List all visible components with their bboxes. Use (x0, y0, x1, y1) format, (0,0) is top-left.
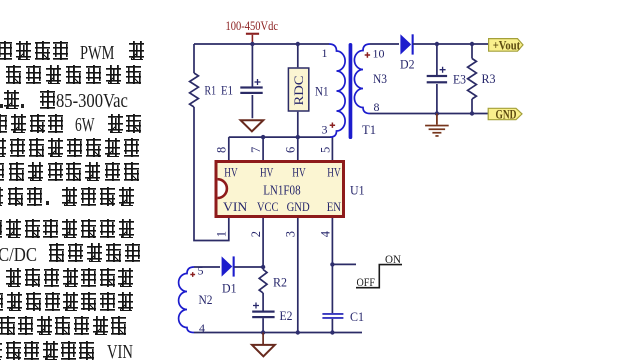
svg-text:1: 1 (215, 231, 229, 237)
junction rail/R3 (470, 42, 474, 46)
svg-text:N2: N2 (199, 292, 213, 307)
capacitor E2 (252, 311, 274, 313)
wire: pin 3 (GND) down to rail (297, 218, 299, 333)
CJK paragraph line 1 (0, 41, 1, 61)
capacitor E3 (436, 44, 438, 114)
svg-text:E2: E2 (280, 308, 293, 323)
wire: pin 8 (228, 137, 230, 161)
port GND (488, 108, 522, 119)
resistor R1 (190, 73, 199, 107)
svg-text:LN1F08: LN1F08 (263, 182, 301, 197)
CJK paragraph line 4 (0, 114, 1, 134)
CJK paragraph line 7 (0, 187, 1, 207)
CJK paragraph line 11 (0, 292, 1, 312)
svg-text:7: 7 (249, 147, 263, 153)
capacitor C1 (322, 313, 343, 315)
svg-text:5: 5 (318, 147, 332, 153)
wire: pin 7 (262, 137, 264, 161)
port +Vout (489, 39, 523, 52)
CJK paragraph line 13 (0, 341, 1, 361)
svg-text:VIN: VIN (223, 199, 248, 214)
svg-text:E3: E3 (453, 72, 466, 87)
junction EN stub (330, 262, 334, 266)
U1 notch (218, 179, 227, 198)
svg-text:E1: E1 (221, 83, 233, 98)
earth ground symbol (436, 114, 438, 125)
svg-text:EN: EN (327, 199, 342, 214)
wire: N2 top lead to D1 (194, 266, 220, 268)
junction bus/pin7 (261, 135, 265, 139)
CJK paragraph line 3 (0, 90, 1, 110)
svg-text:U1: U1 (350, 183, 365, 198)
junction gnd/R3 (470, 111, 474, 115)
CJK paragraph line 10 (0, 268, 1, 288)
wire: left branch down from rail to pin 1 of U1 (194, 44, 229, 241)
svg-text:100-450Vdc: 100-450Vdc (226, 18, 279, 33)
svg-text:4: 4 (199, 321, 205, 335)
svg-text:GND: GND (496, 106, 517, 121)
junction rail/C1 (330, 330, 334, 334)
CJK paragraph line 9 (0, 243, 1, 263)
svg-text:10: 10 (373, 47, 385, 61)
transformer T1 core (349, 43, 353, 139)
svg-text:R3: R3 (482, 71, 496, 86)
wire: D1 to VCC node (234, 266, 263, 268)
svg-text:T1: T1 (362, 122, 376, 137)
auxiliary winding N2 (179, 267, 194, 333)
op-amp/controller U1 body (216, 162, 344, 217)
CJK paragraph line 8 (0, 219, 1, 239)
diode D2 (400, 34, 411, 54)
svg-text:4: 4 (318, 230, 332, 237)
svg-text:5: 5 (198, 264, 204, 278)
diode D1 (222, 256, 233, 276)
ON/OFF step annotation (356, 265, 402, 288)
ground triangle under bottom rail (262, 333, 264, 345)
svg-text:R2: R2 (273, 275, 287, 290)
wire: D2 to +Vout (413, 43, 489, 45)
resistor R2 (259, 270, 267, 294)
junction bottom rail/E2 (261, 330, 265, 334)
svg-text:VCC: VCC (257, 199, 279, 214)
svg-text:8: 8 (215, 147, 229, 153)
CJK paragraph line 5 (0, 138, 1, 158)
junction VCC node (261, 265, 265, 269)
junction bus/pin6 (296, 135, 300, 139)
svg-text:3: 3 (284, 231, 298, 237)
pin 10 label + polarity (365, 52, 370, 57)
svg-text:N1: N1 (315, 84, 329, 99)
junction at DC rail / E1 (250, 42, 254, 46)
capacitor E1 (251, 44, 253, 118)
transformer primary winding N1 (329, 44, 345, 137)
svg-text:D2: D2 (400, 56, 415, 71)
svg-text:C1: C1 (350, 309, 364, 324)
junction rail/pin3 (296, 330, 300, 334)
CJK paragraph line 2 (0, 65, 1, 85)
svg-text:HV: HV (292, 164, 306, 179)
svg-text:GND: GND (287, 199, 310, 214)
wire: secondary GND rail (370, 113, 488, 115)
svg-text:+Vout: +Vout (493, 37, 521, 52)
wire: N3 to D2 (370, 43, 399, 45)
wire: pin 5 (331, 137, 333, 161)
svg-text:HV: HV (327, 164, 341, 179)
pin 5 label (N2) + polarity (190, 272, 195, 277)
wire: pin 4 (EN) down (331, 218, 333, 333)
wire: bottom return rail (194, 332, 362, 334)
svg-text:ON: ON (385, 252, 401, 266)
wire: top DC rail left (194, 43, 329, 45)
junction at DC rail / RDC (296, 42, 300, 46)
svg-text:3: 3 (322, 123, 328, 137)
ground (primary return triangle under E1) (241, 120, 264, 131)
svg-text:R1: R1 (205, 83, 217, 98)
svg-text:6: 6 (284, 147, 298, 153)
svg-text:1: 1 (322, 46, 328, 60)
resistor R3 (471, 44, 473, 114)
transformer secondary winding N3 (354, 44, 370, 114)
wire: pin 2 (VCC) down (262, 218, 264, 270)
svg-text:HV: HV (224, 164, 238, 179)
svg-text:OFF: OFF (357, 275, 376, 289)
resistor RDC (297, 44, 299, 137)
svg-text:D1: D1 (222, 280, 237, 295)
svg-text:N3: N3 (373, 71, 387, 86)
junction rail/E3 (435, 42, 439, 46)
svg-text:HV: HV (260, 164, 274, 179)
CJK paragraph line 12 (0, 316, 1, 336)
junction gnd/E3 (435, 111, 439, 115)
svg-text:2: 2 (249, 231, 263, 237)
wire: pin 6 (297, 137, 299, 161)
wire: EN stub (332, 263, 356, 265)
wire: HV bus tying pins 8,7,6,5 (229, 136, 331, 138)
svg-text:RDC: RDC (291, 76, 306, 106)
svg-text:8: 8 (374, 100, 380, 114)
CJK paragraph line 6 (0, 162, 1, 182)
